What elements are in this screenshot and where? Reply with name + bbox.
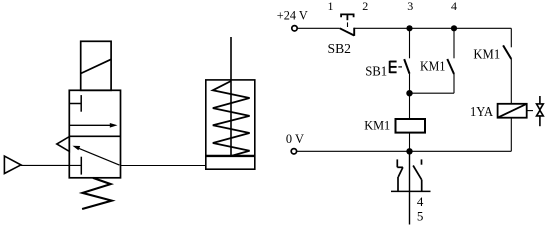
svg-text:4: 4 (451, 0, 457, 13)
pushbutton SB2 (NC) actuator cap (341, 14, 354, 20)
SB1 branch upper wire (409, 28, 411, 58)
node 4 (451, 25, 457, 31)
SB2 contact arm (340, 28, 354, 35)
cylinder body (206, 80, 255, 169)
0V rail (297, 150, 512, 152)
stub to valve indicator (527, 110, 533, 112)
svg-text:3: 3 (407, 0, 413, 13)
KM1 branch lower wire (453, 74, 455, 93)
SB2 mechanical link dash (347, 22, 349, 27)
svg-text:SB2: SB2 (328, 42, 352, 57)
KM1 branch link to junction (410, 92, 455, 94)
svg-text:2: 2 (362, 0, 368, 13)
solenoid 1YA (498, 104, 527, 118)
exhaust triangle on valve edge (57, 137, 70, 152)
svg-text:+24 V: +24 V (277, 8, 309, 23)
lower position blocked port T (80, 157, 82, 175)
svg-text:KM1: KM1 (420, 60, 445, 75)
node 3 (406, 25, 412, 31)
svg-text:0 V: 0 V (286, 131, 305, 146)
coil to 0V wire (409, 133, 411, 152)
upper position flow arrow (69, 123, 117, 128)
wire terminal to SB2 (297, 27, 339, 29)
SB2 fixed terminal bar (353, 28, 355, 36)
limit switch NO contact (413, 159, 422, 191)
svg-text:1YA: 1YA (470, 105, 494, 120)
valve indicator (two triangles) (537, 96, 544, 126)
KM1 NO contact arm (right branch) (503, 45, 511, 59)
wire from silencer to valve left port (21, 164, 81, 166)
SB1 contact arm (404, 59, 409, 74)
+24V terminal (292, 26, 297, 31)
valve return spring (82, 178, 112, 209)
svg-text:4: 4 (417, 194, 424, 209)
svg-text:5: 5 (417, 208, 424, 223)
SB1 mechanical link dash (398, 66, 402, 68)
KM1 branch upper wire (453, 28, 455, 58)
working line valve to cylinder (121, 165, 206, 167)
0V terminal (291, 149, 296, 154)
KM1 coil (396, 119, 426, 133)
piston rod (230, 37, 232, 155)
SB1 lower wire to junction (409, 74, 411, 119)
pushbutton SB1 (NO) actuator E (390, 61, 397, 73)
0V node (406, 148, 412, 154)
valve body (69, 90, 120, 178)
lower position flow path arrow (73, 146, 120, 165)
right branch wire from rail corner (510, 28, 512, 47)
junction node (406, 90, 412, 96)
svg-text:SB1: SB1 (365, 65, 387, 80)
exhaust silencer triangle (far left) (4, 156, 21, 173)
wire SB2 to right corner (354, 27, 511, 29)
KM1 NO contact arm (middle branch) (447, 59, 454, 74)
solenoid to 0V wire (510, 118, 512, 152)
svg-text:1: 1 (328, 0, 334, 13)
upper position blocked port T (69, 95, 81, 112)
piston (206, 155, 255, 157)
svg-text:KM1: KM1 (473, 47, 500, 62)
solenoid actuator box (81, 41, 111, 90)
wire contact to solenoid (510, 59, 512, 104)
cylinder return spring (213, 81, 250, 156)
svg-text:KM1: KM1 (364, 118, 390, 133)
mechanical bar (391, 190, 431, 192)
limit switch actuator line (409, 151, 411, 224)
limit switch NC contact (397, 159, 403, 191)
